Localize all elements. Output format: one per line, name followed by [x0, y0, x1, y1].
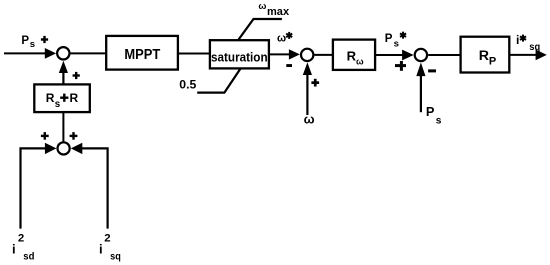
summing junction S3	[415, 49, 427, 61]
svg-text:i: i	[99, 242, 103, 257]
wire isq input	[80, 148, 108, 228]
star of Ps-star	[400, 32, 406, 39]
svg-text:ω: ω	[277, 32, 286, 44]
wire RP to output	[509, 54, 538, 56]
svg-text:R: R	[479, 48, 489, 64]
svg-text:s: s	[436, 115, 442, 126]
wire S4 up to RsR block	[62, 113, 64, 142]
block Romega	[333, 40, 375, 70]
sign plus at S4 right	[70, 132, 78, 140]
svg-text:s: s	[394, 39, 399, 50]
svg-text:R: R	[70, 91, 79, 105]
wire omega input up into S2	[306, 74, 308, 115]
arrowhead RsR into S1	[59, 61, 68, 73]
svg-text:sq: sq	[110, 250, 121, 262]
wire Romega to S3	[375, 54, 405, 56]
svg-text:P: P	[21, 35, 29, 47]
wire saturation to S2	[269, 53, 292, 55]
arrowhead isq into S4	[71, 143, 83, 154]
block RP	[461, 37, 510, 73]
sign minus at S2 left	[286, 64, 292, 67]
arrowhead omega into S2	[303, 62, 312, 75]
sign plus at S4 left	[41, 132, 49, 140]
wire isd input	[21, 148, 48, 228]
svg-text:MPPT: MPPT	[124, 47, 160, 63]
svg-text:ω: ω	[304, 112, 315, 127]
svg-text:s: s	[55, 99, 61, 110]
svg-text:0.5: 0.5	[179, 78, 197, 91]
sign plus at S2 bottom	[311, 79, 319, 87]
plus glyph inside RsR	[60, 94, 68, 102]
svg-text:R: R	[46, 91, 55, 105]
svg-text:2: 2	[104, 233, 110, 245]
sign minus at S3 right	[428, 69, 436, 72]
svg-text:P: P	[385, 33, 393, 45]
wire MPPT to saturation	[178, 53, 210, 55]
arrowhead into S1	[45, 48, 56, 59]
arrowhead output isq	[536, 50, 547, 61]
svg-text:ω: ω	[356, 57, 364, 67]
svg-text:i: i	[516, 33, 519, 47]
arrowhead Ps into S3	[416, 63, 425, 77]
summing junction S2	[301, 49, 313, 61]
sign plus at S1 left	[41, 36, 48, 43]
arrowhead into S2	[289, 49, 300, 59]
arrowhead isd into S4	[45, 143, 57, 154]
saturation characteristic lower flat and slope	[197, 69, 240, 93]
block saturation	[210, 40, 269, 68]
svg-text:ω: ω	[258, 1, 266, 12]
arrowhead into S3	[402, 50, 414, 61]
summing junction S4	[58, 142, 70, 154]
svg-text:P: P	[489, 56, 496, 68]
sign plus at S1 bottom	[73, 72, 80, 79]
wire RsR block up into S1	[62, 71, 64, 84]
wire S3 to RP	[428, 54, 461, 56]
svg-text:saturation: saturation	[211, 50, 268, 65]
sign plus at S3 left	[395, 61, 406, 71]
svg-text:s: s	[30, 39, 35, 50]
wire Ps input up into S3	[420, 75, 422, 112]
star of isq output	[520, 35, 526, 42]
wire S2 to Romega	[315, 54, 335, 56]
wire S1 to MPPT	[71, 52, 106, 54]
svg-text:i: i	[12, 242, 16, 257]
star of omega-star	[286, 32, 292, 39]
wire Ps input	[4, 52, 47, 54]
block RsR	[34, 84, 90, 112]
svg-text:max: max	[267, 6, 290, 18]
summing junction S1	[57, 47, 69, 59]
svg-text:sq: sq	[529, 42, 540, 53]
svg-text:2: 2	[18, 233, 24, 245]
saturation characteristic upper slope and flat	[239, 19, 282, 40]
svg-text:P: P	[426, 104, 435, 119]
block MPPT	[106, 36, 178, 70]
svg-text:sd: sd	[23, 250, 34, 262]
